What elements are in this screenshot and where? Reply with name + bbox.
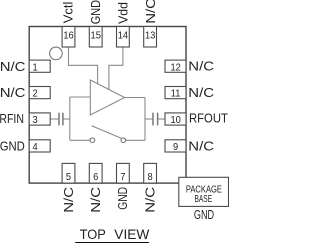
svg-text:Vdd: Vdd [116,2,130,24]
svg-text:N/C: N/C [88,187,103,213]
svg-text:16: 16 [63,30,73,41]
svg-text:RFOUT: RFOUT [189,111,228,126]
svg-text:12: 12 [170,62,180,73]
svg-text:VIEW: VIEW [114,226,150,242]
svg-text:GND: GND [88,0,103,24]
svg-text:6: 6 [93,172,98,183]
svg-text:4: 4 [33,142,39,153]
svg-text:N/C: N/C [188,58,214,73]
svg-text:9: 9 [173,142,178,153]
svg-text:15: 15 [91,30,101,41]
svg-text:8: 8 [148,172,153,183]
svg-text:10: 10 [170,115,180,126]
svg-text:5: 5 [66,172,71,183]
svg-text:N/C: N/C [142,187,157,213]
svg-text:GND: GND [116,187,130,210]
svg-text:N/C: N/C [188,85,214,100]
svg-text:11: 11 [171,88,181,99]
svg-text:TOP: TOP [80,226,106,242]
svg-text:13: 13 [145,30,155,41]
svg-text:14: 14 [118,30,129,41]
svg-text:GND: GND [194,208,214,222]
svg-text:1: 1 [33,62,38,73]
svg-text:2: 2 [33,88,38,99]
svg-text:3: 3 [33,115,38,126]
svg-text:BASE: BASE [194,193,212,205]
svg-text:Vctl: Vctl [61,2,76,24]
svg-text:N/C: N/C [188,139,214,154]
svg-text:GND: GND [0,139,25,154]
svg-text:N/C: N/C [61,187,76,213]
svg-text:N/C: N/C [143,0,158,24]
svg-text:7: 7 [120,172,125,183]
svg-text:RFIN: RFIN [0,111,24,126]
svg-text:N/C: N/C [0,59,25,74]
svg-text:N/C: N/C [0,85,25,100]
